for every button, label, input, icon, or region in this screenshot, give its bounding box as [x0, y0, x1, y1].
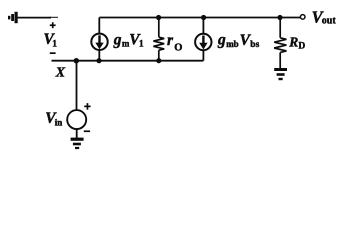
svg-text:1: 1: [139, 40, 144, 50]
label Vout: [312, 7, 337, 26]
svg-text:out: out: [322, 16, 337, 27]
current source I2 gmbVbs: [195, 18, 211, 61]
label - (Vin minus): [84, 130, 90, 132]
current source I1 gmV1: [91, 18, 107, 61]
ground G2 (under Vin): [71, 138, 84, 149]
node X junction dot: [74, 58, 79, 63]
wire top rail (drain node to Vout): [99, 17, 300, 19]
label gmV1: [113, 31, 144, 49]
resistor rO: [153, 18, 164, 61]
svg-text:1: 1: [52, 39, 57, 49]
source Vin (independent voltage source): [67, 110, 86, 129]
terminal Vout (open circle): [300, 15, 305, 20]
svg-text:g: g: [217, 32, 226, 49]
label gmbVbs: [217, 32, 260, 50]
wire bottom rail (node X rail): [52, 60, 204, 62]
svg-text:g: g: [113, 31, 122, 48]
label - (V1 minus): [50, 52, 56, 54]
ground G3 (under RD): [274, 68, 287, 80]
junction dot (rO bottom on X rail): [156, 58, 161, 63]
svg-text:bs: bs: [250, 40, 259, 50]
junction dot (RD top): [277, 15, 282, 20]
ground G1 (gate ground, rotated left): [8, 12, 18, 23]
svg-text:R: R: [288, 34, 298, 49]
label rO: [167, 32, 182, 54]
label + (Vin plus): [84, 103, 90, 110]
svg-text:O: O: [174, 43, 182, 54]
wire X to Vin source: [76, 61, 78, 110]
svg-text:in: in: [55, 117, 63, 127]
svg-text:X: X: [55, 66, 66, 81]
wire gate (from ground G1 to gate terminal): [18, 17, 51, 19]
svg-text:mb: mb: [226, 39, 239, 49]
junction dot (rO top): [156, 15, 161, 20]
label RD: [288, 34, 305, 51]
svg-text:D: D: [298, 42, 305, 52]
junction dot (gmV1 bottom on X rail): [96, 58, 101, 63]
resistor RD: [274, 18, 286, 69]
wire Vin to ground: [76, 129, 78, 138]
svg-text:r: r: [167, 32, 174, 49]
junction dot (gmbVbs top): [201, 15, 206, 20]
label + (V1 plus): [50, 22, 56, 28]
